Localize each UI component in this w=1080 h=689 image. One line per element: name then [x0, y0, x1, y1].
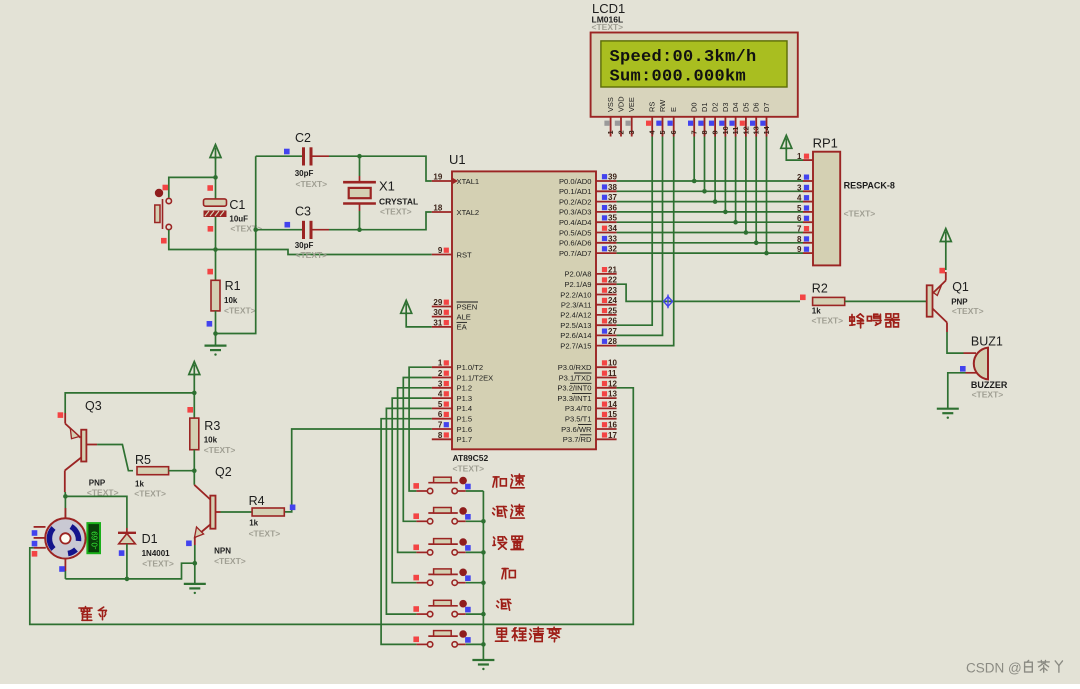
wire P1.1 to button 2: [403, 378, 432, 522]
svg-text:RS: RS: [648, 102, 657, 112]
U1 pin name P3.2/INT0: [557, 383, 591, 392]
svg-text:12: 12: [608, 379, 617, 388]
U1 pin name P1.2: [457, 384, 473, 393]
svg-text:24: 24: [608, 296, 617, 305]
svg-text:7: 7: [690, 130, 699, 134]
red state square Q1 emitter: [939, 268, 945, 274]
RP1 pin 9 stub: [797, 245, 813, 254]
U1 pin name P0.2/AD2: [559, 197, 592, 206]
U1 pin name P0.4/AD4: [559, 218, 592, 227]
svg-text:4: 4: [797, 194, 802, 203]
U1 pin 28 P2.7/A15 stub: [596, 337, 617, 346]
node junction ground rail: [481, 519, 486, 524]
blue state square key2: [465, 514, 471, 520]
svg-text:<TEXT>: <TEXT>: [296, 179, 328, 189]
ground below Q2: [184, 584, 206, 594]
node junction motor top: [63, 494, 68, 499]
svg-text:D1: D1: [700, 103, 709, 112]
resistor R3 body: [190, 418, 199, 450]
U1 pin 2 P1.1/T2EX stub: [432, 369, 452, 378]
svg-text:26: 26: [608, 317, 617, 326]
U1 pin name P2.7/A15: [560, 341, 591, 350]
wire Q1 collector to buzzer: [947, 332, 964, 353]
svg-text:5: 5: [438, 400, 443, 409]
svg-text:37: 37: [608, 193, 617, 202]
svg-text:1k: 1k: [812, 307, 821, 316]
resistor R1: [215, 250, 217, 281]
svg-text:30pF: 30pF: [295, 169, 314, 178]
blue state square key3: [465, 545, 471, 551]
LCD pin 5 RW: [656, 100, 667, 137]
node junction ground rail: [481, 580, 486, 585]
red state square key4: [413, 575, 419, 581]
U1 pin name P0.1/AD1: [559, 187, 592, 196]
svg-text:XTAL1: XTAL1: [457, 177, 480, 186]
label 加: [502, 569, 515, 579]
red state square key2: [413, 513, 419, 519]
U1 pin name P2.3/A11: [561, 301, 592, 310]
svg-text:P1.2: P1.2: [457, 384, 473, 393]
svg-text:15: 15: [608, 410, 617, 419]
node junction D5/P0.5: [744, 230, 749, 235]
svg-text:P0.2/AD2: P0.2/AD2: [559, 197, 592, 206]
wire power down to rail: [193, 375, 195, 393]
crystal X1: [343, 176, 376, 211]
svg-text:35: 35: [608, 214, 617, 223]
svg-text:<TEXT>: <TEXT>: [134, 489, 166, 499]
node junction C3 row left: [253, 227, 258, 232]
svg-text:P0.4/AD4: P0.4/AD4: [559, 218, 592, 227]
svg-text:22: 22: [608, 276, 617, 285]
capacitor C3: [304, 221, 330, 239]
svg-text:Sum:000.000km: Sum:000.000km: [610, 67, 747, 86]
U1 pin name P0.0/AD0: [559, 177, 592, 186]
blue state square key5: [465, 607, 471, 613]
svg-text:33: 33: [608, 234, 617, 243]
wire VCC to R3 top: [193, 393, 195, 418]
U1 pin name P3.0/RXD: [558, 363, 592, 372]
node junction RST rail / C1 bottom: [213, 247, 218, 252]
wire LCD D3 to P0.3 bus: [724, 137, 726, 212]
probe marker blue diamond: [664, 295, 673, 309]
wire C2/C3 branch vertical: [216, 156, 256, 333]
svg-text:P0.3/AD3: P0.3/AD3: [559, 208, 592, 217]
RP1 pin 2 stub: [797, 173, 813, 182]
svg-text:7: 7: [438, 421, 443, 430]
U1 pin name P3.4/T0: [565, 404, 592, 413]
U1 pin 36 P0.3/AD3 stub: [596, 203, 617, 212]
LCD pin 14 D7: [760, 103, 771, 137]
label 减速: [493, 504, 525, 518]
svg-text:P1.7: P1.7: [457, 435, 473, 444]
U1 pin 19 XTAL1 stub: [432, 173, 452, 182]
label 设置: [493, 536, 524, 549]
pushbutton key6: [416, 630, 467, 647]
red state square Q3 emitter: [58, 412, 64, 418]
svg-text:P3.6/WR: P3.6/WR: [561, 425, 592, 434]
svg-text:9: 9: [797, 245, 802, 254]
U1 pin name P2.2/A10: [560, 290, 591, 299]
wire buzzer to ground: [948, 373, 966, 409]
U1 pin name P3.7/RD: [563, 435, 592, 444]
red state square C1 top: [207, 185, 213, 191]
wire key5 right to ground rail: [466, 613, 484, 615]
wire bottom rail to motor: [65, 563, 194, 579]
svg-text:P2.2/A10: P2.2/A10: [560, 290, 591, 299]
svg-text:Q3: Q3: [85, 399, 102, 413]
svg-text:XTAL2: XTAL2: [457, 208, 480, 217]
svg-text:1: 1: [438, 359, 443, 368]
svg-text:1k: 1k: [135, 480, 144, 489]
svg-text:D1: D1: [142, 532, 158, 546]
svg-text:CRYSTAL: CRYSTAL: [379, 197, 418, 207]
wire P0.1 bus row: [617, 190, 803, 192]
pushbutton reset switch: [155, 189, 172, 230]
svg-text:8: 8: [700, 130, 709, 134]
U1 pin name P0.3/AD3: [559, 208, 592, 217]
power symbol VCC (EA): [401, 300, 412, 315]
svg-text:17: 17: [608, 431, 617, 440]
svg-text:9: 9: [438, 246, 443, 255]
blue state square D1: [119, 550, 125, 556]
blue state square C3: [285, 222, 291, 228]
U1 pin 15 P3.5/T1 stub: [596, 410, 617, 419]
svg-text:PNP: PNP: [89, 479, 106, 488]
wire Q2 emitter to ground: [194, 545, 196, 563]
U1 pin 6 P1.5 stub: [432, 410, 452, 419]
svg-text:X1: X1: [379, 179, 395, 194]
U1 pin name P1.0/T2: [457, 363, 484, 372]
node junction X1 top: [357, 154, 362, 159]
svg-text:CSDN @: CSDN @: [966, 661, 1022, 676]
wire node to U1 XTAL1 pin 19: [360, 156, 432, 181]
wire hall sensor to INT0: [30, 388, 634, 625]
wire junction to button top: [169, 177, 216, 197]
wire P1.5 to button 6: [381, 419, 432, 645]
U1 pin name P3.6/WR: [561, 425, 592, 434]
pushbutton key5: [416, 600, 467, 617]
U1 pin 25 P2.4/A12 stub: [596, 306, 617, 315]
LCD pin 7 D0: [688, 103, 699, 137]
red state square key1: [413, 483, 419, 489]
wire X1 bottom lead to C3 node: [359, 211, 361, 230]
node junction X1 bottom: [357, 227, 362, 232]
wire LCD RS to P2.5: [617, 137, 653, 326]
U1 pin name P1.1/T2EX: [457, 373, 494, 382]
svg-text:19: 19: [433, 173, 442, 182]
U1 pin name P1.3: [457, 394, 473, 403]
diode D1 1N4001: [118, 528, 136, 579]
svg-text:R3: R3: [204, 419, 220, 433]
svg-text:P0.0/AD0: P0.0/AD0: [559, 177, 592, 186]
U1 pin 22 P2.1/A9 stub: [596, 276, 617, 285]
wire P0.0 bus row: [617, 180, 803, 182]
svg-text:8: 8: [797, 235, 802, 244]
U1 pin name P2.0/A8: [564, 270, 591, 279]
wire RST rail to U1 pin 9: [216, 250, 432, 255]
U1 pin 7 P1.6 stub: [432, 421, 452, 430]
U1 pin 30 ALE stub: [432, 308, 452, 317]
svg-text:RP1: RP1: [813, 136, 838, 151]
pushbutton key1: [416, 477, 467, 494]
wire R5 to R3/Q2 node: [169, 470, 195, 472]
wire P1.0 to button 1: [409, 367, 432, 491]
RP1 pin 1 stub: [797, 152, 813, 161]
red state square C1 bottom: [208, 226, 214, 232]
svg-text:P3.4/T0: P3.4/T0: [565, 404, 592, 413]
U1 pin 9 RST stub: [432, 246, 452, 255]
XTAL1 clock arrow: [452, 178, 458, 185]
LCD pin 8 D1: [698, 103, 709, 137]
blue state square key1: [465, 484, 471, 490]
LCD pin 6 E: [668, 107, 679, 137]
LCD green screen: [601, 41, 787, 87]
svg-text:10k: 10k: [204, 436, 218, 445]
node junction VCC rail: [192, 391, 197, 396]
svg-text:VEE: VEE: [627, 97, 636, 112]
node junction ground rail: [481, 612, 486, 617]
pushbutton key3: [416, 538, 467, 555]
RP1 pin 3 stub: [797, 183, 813, 192]
svg-text:Q2: Q2: [215, 465, 232, 479]
svg-text:12: 12: [741, 126, 750, 134]
red state square R2 left: [800, 295, 806, 301]
svg-text:P3.0/RXD: P3.0/RXD: [558, 363, 592, 372]
wire P1.2 to button 3: [398, 388, 432, 553]
svg-text:36: 36: [608, 203, 617, 212]
U1 pin 17 P3.7/RD stub: [596, 431, 617, 440]
svg-text:11: 11: [731, 127, 740, 135]
node junction at C1 top: [213, 175, 218, 180]
blue state square Q2 emitter: [186, 541, 192, 547]
wire LCD D6 to P0.6 bus: [755, 137, 757, 243]
svg-text:Speed:00.3km/h: Speed:00.3km/h: [610, 48, 757, 67]
U1 pin 21 P2.0/A8 stub: [596, 265, 617, 274]
svg-text:39: 39: [608, 173, 617, 182]
U1 pin name P3.5/T1: [565, 415, 592, 424]
U1 pin 29 PSEN stub: [432, 298, 452, 307]
U1 pin name P2.6/A14: [560, 331, 591, 340]
svg-text:<TEXT>: <TEXT>: [296, 250, 328, 260]
svg-text:<TEXT>: <TEXT>: [214, 556, 246, 566]
svg-text:P0.5/AD5: P0.5/AD5: [559, 228, 592, 237]
power symbol VCC (Q1): [940, 229, 951, 244]
U1 pin 33 P0.6/AD6 stub: [596, 234, 617, 243]
svg-text:Q1: Q1: [952, 280, 969, 294]
svg-text:6: 6: [669, 130, 678, 134]
svg-text:<TEXT>: <TEXT>: [972, 390, 1004, 400]
label 减: [497, 599, 511, 610]
U1 pin 31 EA stub: [432, 318, 452, 327]
wire LCD D1 to P0.1 bus: [704, 137, 706, 192]
svg-text:P1.1/T2EX: P1.1/T2EX: [457, 373, 494, 382]
svg-text:13: 13: [752, 126, 761, 134]
svg-text:7: 7: [797, 225, 802, 234]
wire P1.3 to button 4: [392, 398, 432, 583]
node junction D2/P0.2: [713, 199, 718, 204]
U1 pin name P1.6: [457, 425, 473, 434]
node junction D4/P0.4: [733, 220, 738, 225]
U1 pin 16 P3.6/WR stub: [596, 421, 617, 430]
capacitor C1 electrolytic: [204, 177, 227, 249]
svg-text:<TEXT>: <TEXT>: [142, 559, 174, 569]
wire P0.3 bus row: [617, 211, 803, 213]
wire motor top to D1 top: [65, 496, 127, 528]
svg-text:1k: 1k: [249, 519, 258, 528]
svg-text:D5: D5: [741, 103, 750, 112]
U1 pin 38 P0.1/AD1 stub: [596, 183, 617, 192]
svg-text:<TEXT>: <TEXT>: [952, 306, 984, 316]
power symbol VCC (motor): [189, 362, 200, 377]
microcontroller U1 AT89C52 body: [452, 171, 596, 449]
U1 pin name P2.1/A9: [564, 280, 591, 289]
svg-text:14: 14: [608, 400, 617, 409]
resistor R1 body: [211, 280, 220, 311]
wire X1 top lead: [359, 156, 361, 176]
wire VCC rail to Q3 emitter: [65, 393, 194, 413]
U1 pin 13 P3.3/INT1 stub: [596, 390, 617, 399]
svg-text:<TEXT>: <TEXT>: [453, 464, 485, 474]
power symbol VCC (reset): [210, 145, 221, 160]
svg-text:U1: U1: [449, 152, 466, 167]
wire C3 to X1 bottom node: [329, 229, 360, 231]
svg-text:10k: 10k: [224, 296, 238, 305]
svg-text:P1.6: P1.6: [457, 425, 473, 434]
wire LCD D4 to P0.4 bus: [735, 137, 737, 223]
wire LCD D7 to P0.7 bus: [766, 137, 768, 254]
wire P1.6 to R4: [284, 429, 432, 512]
U1 pin name ALE: [457, 312, 471, 321]
node junction D7/P0.7: [764, 251, 769, 256]
svg-text:2: 2: [617, 130, 626, 134]
svg-text:E: E: [669, 107, 678, 112]
resistor R5 body: [137, 467, 169, 475]
U1 pin name P2.5/A13: [560, 321, 591, 330]
RP1 pin 5 stub: [797, 204, 813, 213]
wire LCD E to P2.7: [617, 137, 674, 346]
LCD pin 10 D3: [719, 103, 730, 137]
U1 pin name P0.7/AD7: [559, 249, 592, 258]
svg-text:6: 6: [797, 214, 802, 223]
svg-text:P3.1/TXD: P3.1/TXD: [559, 373, 592, 382]
svg-text:NPN: NPN: [214, 547, 231, 556]
svg-text:30pF: 30pF: [295, 241, 314, 250]
U1 pin 27 P2.6/A14 stub: [596, 327, 617, 336]
svg-text:<TEXT>: <TEXT>: [592, 22, 624, 32]
U1 pin 39 P0.0/AD0 stub: [596, 173, 617, 182]
wire P0.2 bus row: [617, 201, 803, 203]
svg-text:3: 3: [797, 183, 802, 192]
LCD pin 13 D6: [750, 103, 761, 137]
red state square R1 top: [207, 269, 213, 275]
svg-text:29: 29: [433, 298, 442, 307]
U1 pin name P3.3/INT1: [557, 394, 591, 403]
svg-text:R4: R4: [249, 494, 265, 508]
U1 pin 10 P3.0/RXD stub: [596, 359, 617, 368]
svg-text:C3: C3: [295, 205, 311, 219]
U1 pin name XTAL1: [457, 177, 480, 186]
svg-text:<TEXT>: <TEXT>: [224, 306, 256, 316]
svg-text:PSEN: PSEN: [457, 302, 478, 311]
transistor Q1 PNP: [927, 272, 947, 332]
wire R2 to Q1 base: [845, 300, 927, 302]
blue state square C2: [284, 149, 290, 155]
node junction R1 bottom: [213, 331, 218, 336]
svg-text:D2: D2: [711, 103, 720, 112]
svg-text:D4: D4: [731, 103, 740, 112]
watermark 白茶丫: [1025, 660, 1063, 672]
U1 pin name RST: [457, 250, 473, 259]
svg-text:P1.5: P1.5: [457, 415, 473, 424]
svg-text:10: 10: [721, 126, 730, 134]
red state square key5: [413, 606, 419, 612]
blue state square R1 bottom: [207, 321, 213, 327]
wire key1 right to ground rail: [466, 490, 484, 492]
red state square key6: [413, 637, 419, 643]
wire power to RP1 pin1: [786, 149, 803, 161]
U1 pin 1 P1.0/T2 stub: [432, 359, 452, 368]
svg-text:D7: D7: [762, 103, 771, 112]
svg-text:R2: R2: [812, 282, 828, 296]
U1 pin name P2.4/A12: [560, 311, 591, 320]
wire Q3 base to R5: [97, 445, 133, 471]
svg-text:3: 3: [627, 130, 636, 134]
wire P0.5 bus row: [617, 232, 803, 234]
svg-text:BUZ1: BUZ1: [971, 335, 1003, 349]
wire R1 bottom to ground junction: [215, 311, 217, 334]
U1 pin 18 XTAL2 stub: [432, 204, 452, 213]
blue state square motor pin1: [32, 530, 38, 536]
svg-text:5: 5: [658, 130, 667, 134]
blue state square R4 right: [290, 505, 296, 511]
svg-text:RESPACK-8: RESPACK-8: [844, 181, 895, 191]
LCD pin 3 VEE: [626, 97, 637, 136]
svg-text:1: 1: [606, 130, 615, 134]
wire key4 right to ground rail: [466, 582, 484, 584]
svg-text:RST: RST: [457, 250, 473, 259]
node junction D3/P0.3: [723, 210, 728, 215]
svg-text:P2.4/A12: P2.4/A12: [560, 311, 591, 320]
LCD pin 12 D5: [740, 103, 751, 137]
svg-text:10uF: 10uF: [229, 215, 248, 224]
label 霍尔 hall text: [79, 607, 107, 621]
blue state square key4: [465, 575, 471, 581]
node junction D1 bottom: [125, 577, 130, 582]
wire Q2 base to R4: [221, 511, 253, 513]
wire P1.4 to button 5: [386, 408, 431, 614]
blue state square key6: [465, 637, 471, 643]
U1 pin name P0.5/AD5: [559, 228, 592, 237]
node junction R3 bottom: [192, 468, 197, 473]
blue state square BUZ1: [960, 366, 966, 372]
svg-text:-0.69: -0.69: [91, 531, 100, 550]
RP1 pin 8 stub: [797, 235, 813, 244]
U1 pin 24 P2.3/A11 stub: [596, 296, 617, 305]
svg-text:34: 34: [608, 224, 617, 233]
svg-text:<TEXT>: <TEXT>: [812, 316, 844, 326]
svg-text:31: 31: [433, 318, 442, 327]
svg-text:C1: C1: [229, 198, 245, 212]
svg-text:6: 6: [438, 410, 443, 419]
svg-text:13: 13: [608, 390, 617, 399]
RP1 pin 6 stub: [797, 214, 813, 223]
svg-text:P3.3/INT1: P3.3/INT1: [557, 394, 591, 403]
svg-text:38: 38: [608, 183, 617, 192]
node junction D0/P0.0: [692, 179, 697, 184]
LCD pin 1 VSS: [604, 97, 615, 136]
svg-text:2: 2: [438, 369, 443, 378]
U1 pin 26 P2.5/A13 stub: [596, 317, 617, 326]
